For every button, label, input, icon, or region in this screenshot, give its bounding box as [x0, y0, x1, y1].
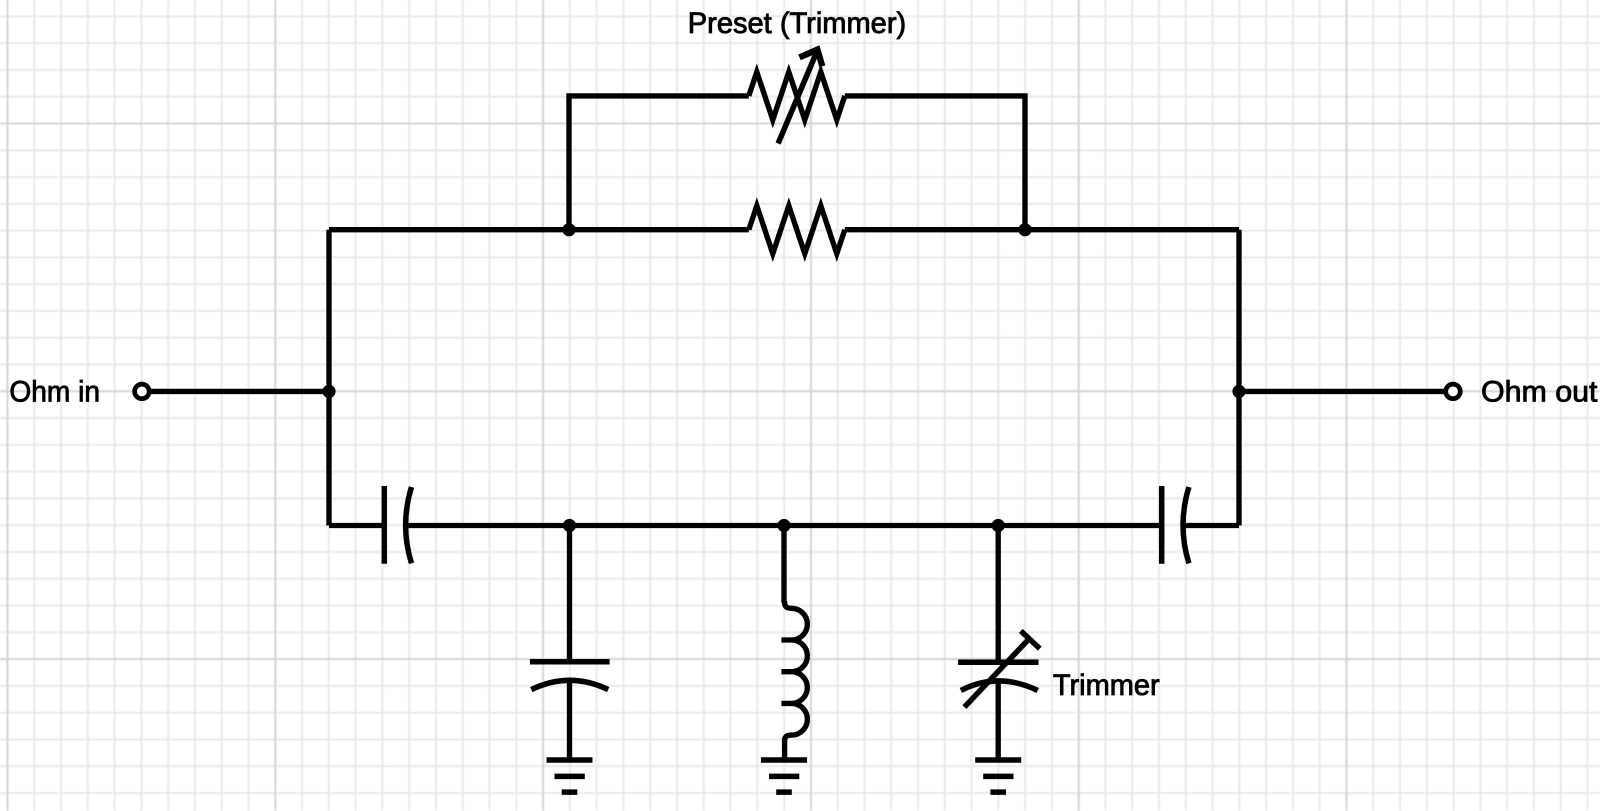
- capacitor C2 right curved plate: [1183, 487, 1189, 563]
- terminal: Ohm in open circle: [135, 384, 150, 399]
- wire: branch 2 lower lead: [782, 740, 787, 760]
- node: junction dot Ohm in: [322, 385, 335, 398]
- node: junction dot branch 1: [563, 519, 576, 532]
- node: junction dot right (preset tap right): [1018, 223, 1031, 236]
- svg-text:Ohm in: Ohm in: [9, 375, 100, 408]
- wire: C2 to bottom-right corner: [1184, 523, 1239, 528]
- wire: right vertical bus: [1236, 230, 1241, 526]
- svg-text:Trimmer: Trimmer: [1053, 669, 1160, 702]
- variable resistor R1 (preset trimmer) zigzag: [749, 72, 845, 120]
- capacitor C2 left plate: [1159, 486, 1165, 564]
- capacitor C3 top plate: [530, 659, 610, 665]
- wire: preset loop right vertical: [845, 96, 1025, 230]
- variable resistor R1 arrow head: [800, 50, 823, 67]
- trimmer capacitor C4 diagonal stroke: [964, 640, 1027, 707]
- wire: middle horizontal left segment: [329, 227, 749, 232]
- svg-text:Ohm out: Ohm out: [1481, 375, 1597, 408]
- wire: branch 1 lower lead: [567, 681, 572, 760]
- wire: bottom-left corner to capacitor C1: [329, 523, 384, 526]
- wire: branch 3 upper lead: [996, 526, 1001, 663]
- ground symbol G1: [547, 760, 593, 792]
- trimmer capacitor C4 bottom curved plate: [961, 681, 1038, 690]
- capacitor C3 bottom curved plate: [531, 680, 608, 689]
- wire: Ohm in lead: [149, 389, 329, 394]
- wire: Ohm out lead: [1239, 389, 1446, 394]
- node: junction dot Ohm out: [1232, 385, 1245, 398]
- capacitor C1 left plate: [382, 486, 388, 564]
- wire: middle horizontal right segment: [845, 227, 1239, 232]
- wire: preset loop left vertical: [569, 96, 749, 230]
- terminal: Ohm out open circle: [1446, 384, 1461, 399]
- node: junction dot left (preset tap left): [562, 223, 575, 236]
- wire: branch 2 upper lead: [781, 526, 786, 604]
- trimmer capacitor C4 end bar: [1021, 631, 1040, 649]
- ground symbol G2: [761, 760, 807, 792]
- wire: branch 1 upper lead: [567, 526, 572, 662]
- wire: bottom bus C1 to C2: [407, 523, 1162, 528]
- svg-text:Preset (Trimmer): Preset (Trimmer): [688, 7, 906, 40]
- wire: left vertical bus: [326, 230, 331, 526]
- ground symbol G3: [975, 760, 1021, 792]
- trimmer capacitor C4 top plate: [958, 659, 1038, 665]
- variable resistor R1 arrow shaft: [778, 53, 816, 144]
- node: junction dot branch 2: [777, 519, 790, 532]
- inductor L1 coil: [781, 601, 807, 742]
- node: junction dot branch 3: [992, 519, 1005, 532]
- capacitor C1 right curved plate: [406, 487, 412, 563]
- resistor R2 zigzag: [749, 206, 845, 254]
- wire: branch 3 lower lead: [996, 681, 1001, 760]
